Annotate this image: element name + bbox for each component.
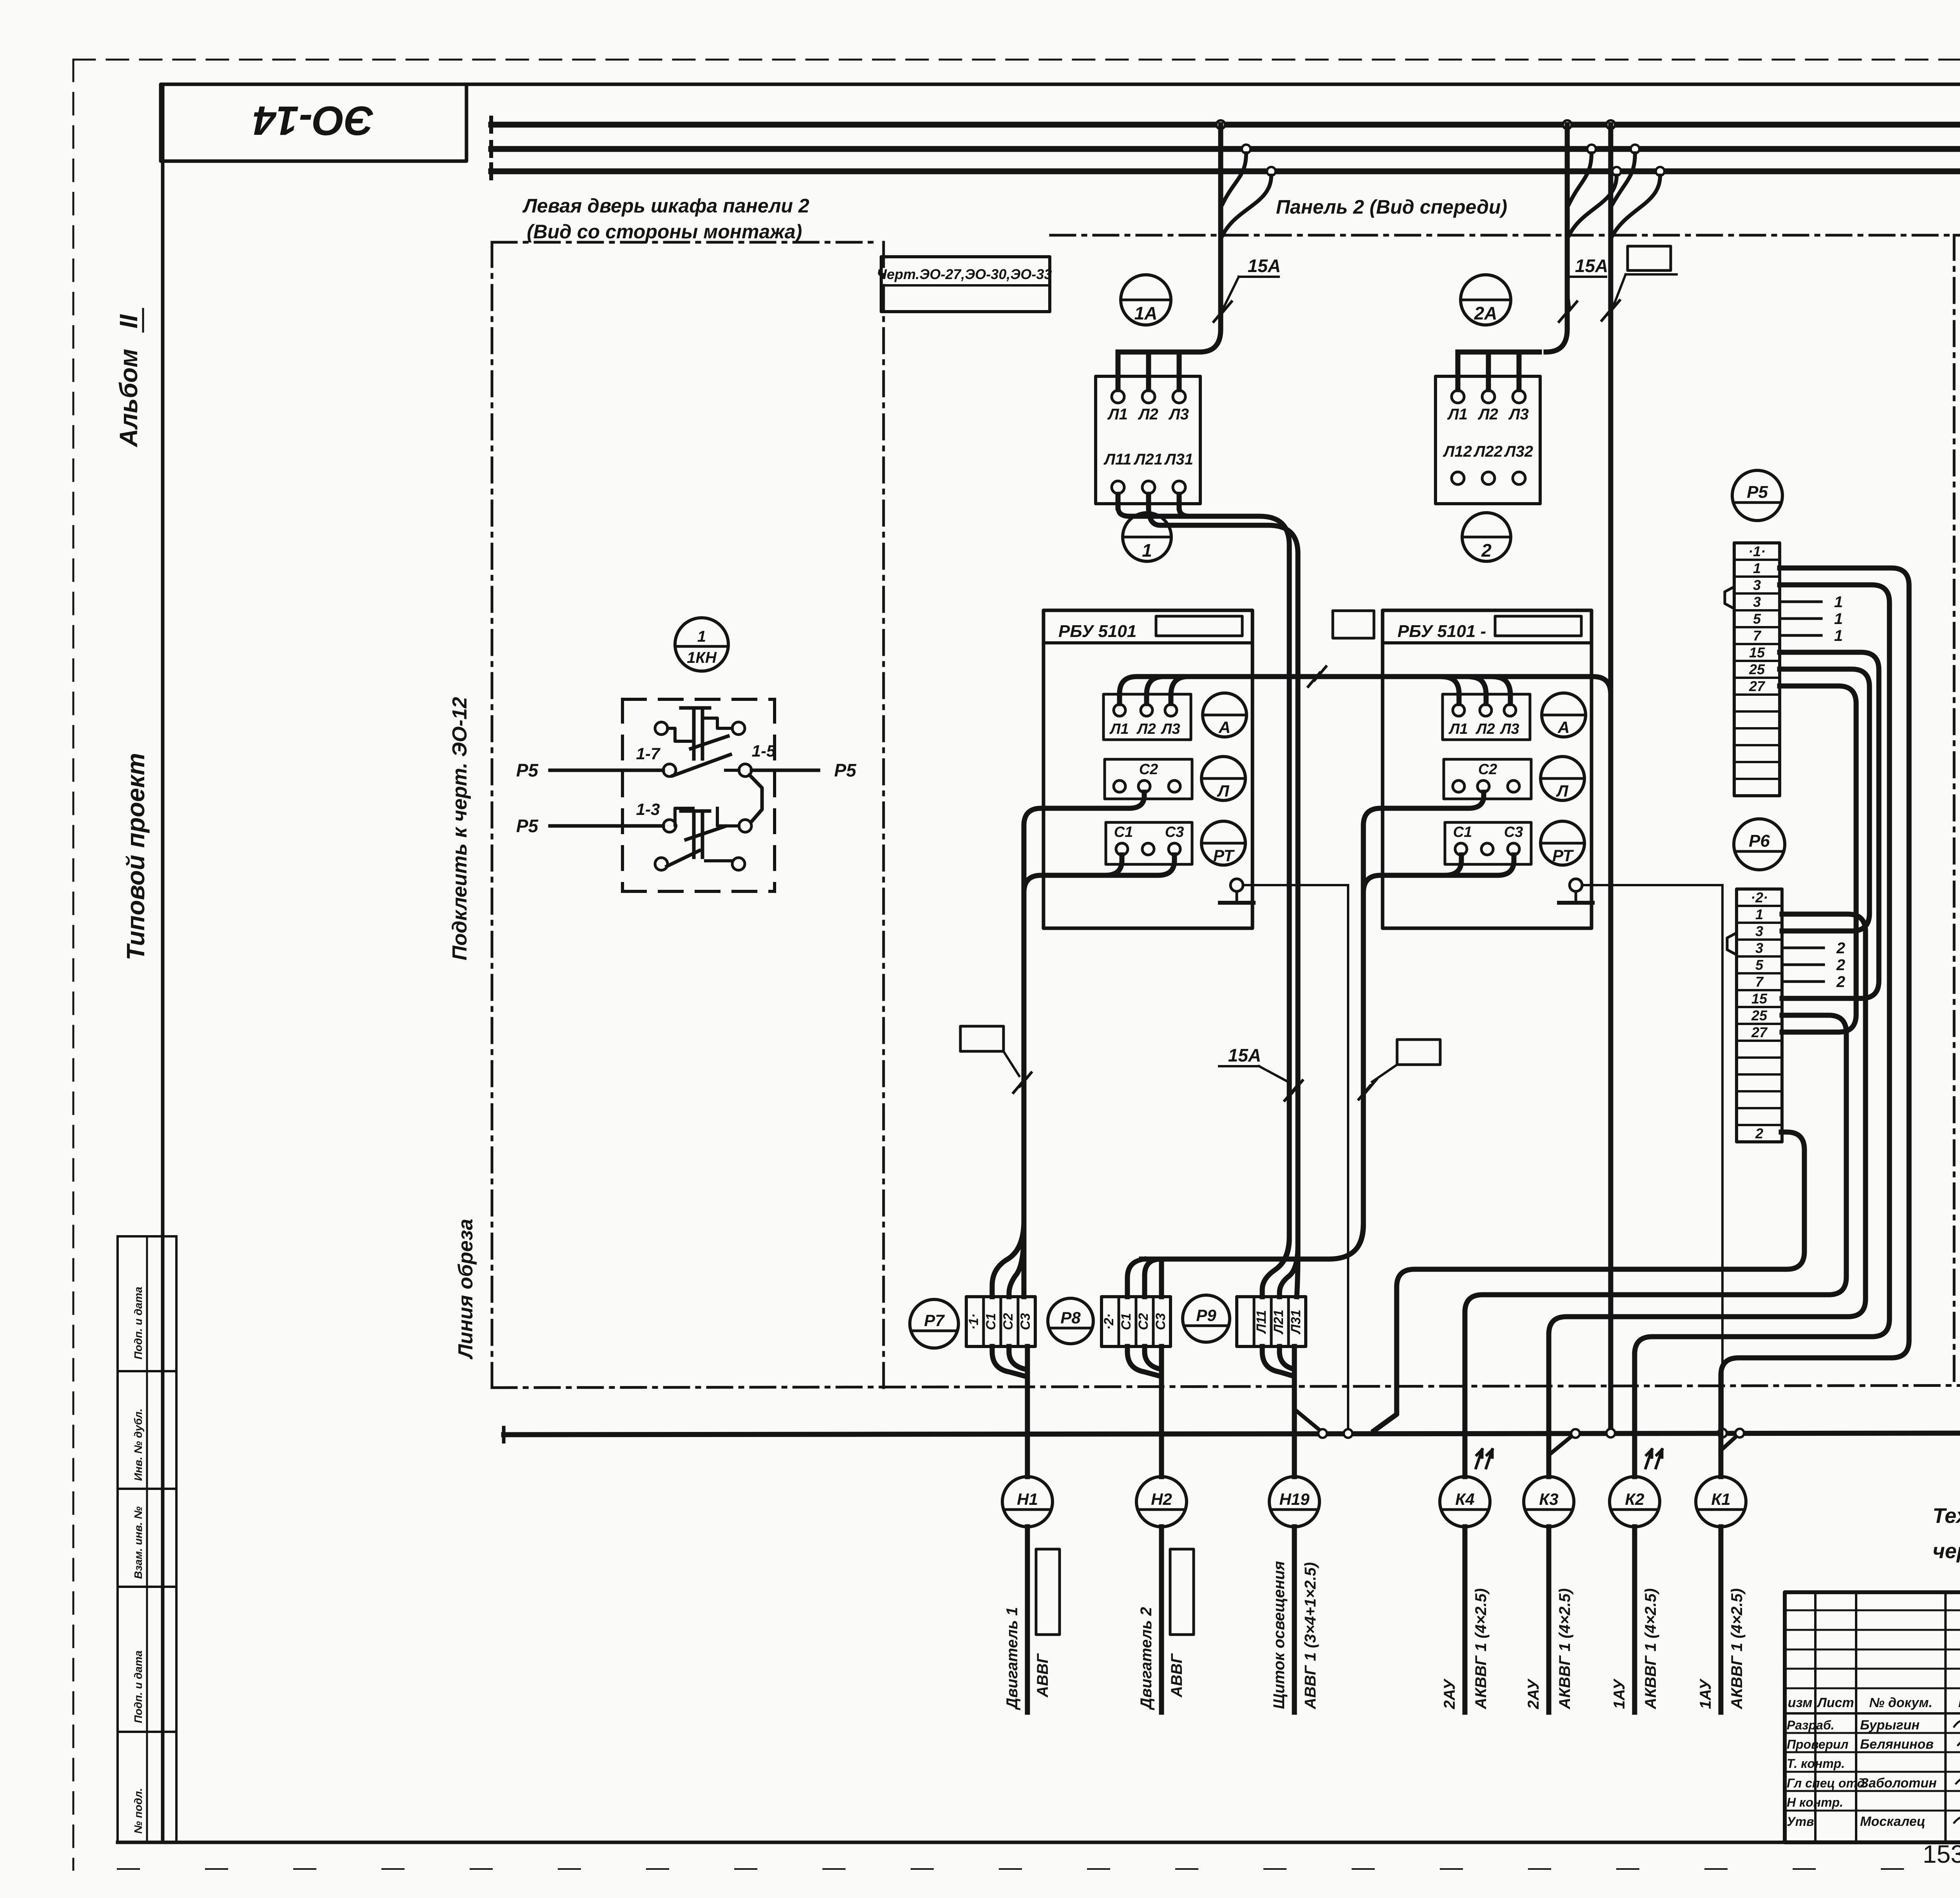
svg-text:1: 1 <box>697 628 706 645</box>
svg-text:1: 1 <box>1753 560 1761 576</box>
leads and labels of 1КН <box>550 769 663 772</box>
svg-text:1: 1 <box>1834 627 1843 644</box>
svg-text:Н1: Н1 <box>1017 1490 1038 1508</box>
bus L1 Zheltaya <box>491 169 1960 174</box>
svg-text:Л1: Л1 <box>1107 406 1128 423</box>
hooks below terminal block 1 <box>992 1346 1024 1376</box>
svg-text:1КН: 1КН <box>687 649 717 666</box>
bottom terminal block 1 <box>966 1297 1035 1346</box>
wire drop to fuse-switch 2A <box>1563 120 1572 129</box>
svg-text:С1: С1 <box>1114 824 1133 840</box>
svg-text:№ подл.: № подл. <box>132 1788 144 1834</box>
svg-text:РТ: РТ <box>1552 846 1574 865</box>
wire strip1 row3 to K2 <box>1635 585 1889 1471</box>
relay circle P9 <box>1183 1295 1230 1342</box>
svg-text:РТ: РТ <box>1213 846 1235 865</box>
svg-text:Л3: Л3 <box>1160 721 1180 737</box>
bottom wire bundle of 1А <box>1116 494 1121 508</box>
border frame <box>163 83 1960 86</box>
svg-text:15: 15 <box>1749 644 1765 660</box>
cable mark rectangle third feeder <box>1628 246 1671 270</box>
svg-text:Двигатель 2: Двигатель 2 <box>1138 1607 1155 1710</box>
svg-text:С1: С1 <box>1119 1313 1134 1330</box>
svg-text:Л2: Л2 <box>1477 406 1498 423</box>
svg-text:С2: С2 <box>1139 761 1158 778</box>
left door left edge <box>491 242 494 1388</box>
svg-text:1-7: 1-7 <box>636 744 661 763</box>
cable mark rectangle motor1 cable <box>960 1026 1004 1051</box>
wire strip1 row27 loop to strip2 row27 <box>1780 686 1856 1032</box>
junction K1 tap to zero bus <box>1721 1435 1738 1450</box>
feeder circle К1 <box>1719 1379 1724 1477</box>
svg-text:Белянинов: Белянинов <box>1860 1737 1934 1752</box>
svg-text:15А: 15А <box>1248 256 1281 276</box>
svg-text:25: 25 <box>1749 661 1765 677</box>
svg-text:15: 15 <box>1751 991 1768 1007</box>
svg-text:3: 3 <box>1755 940 1763 956</box>
bottom terminals of 1А <box>1112 481 1124 494</box>
svg-text:АВВГ: АВВГ <box>1168 1653 1185 1698</box>
relay circle P7 <box>910 1299 958 1348</box>
wire strip1 row1 to K1 <box>1721 568 1909 1471</box>
feeder cable below К3 <box>1546 1527 1552 1712</box>
svg-text:5: 5 <box>1755 957 1764 973</box>
svg-text:Панель 2 (Вид спереди): Панель 2 (Вид спереди) <box>1276 196 1507 218</box>
svg-text:Л: Л <box>1556 782 1569 800</box>
bottom terminal block 2 <box>1102 1297 1171 1346</box>
svg-text:Н19: Н19 <box>1279 1490 1310 1508</box>
svg-text:15А: 15А <box>1575 256 1608 276</box>
svg-text:Р5: Р5 <box>1747 483 1768 502</box>
switch terminal box 1А <box>1096 376 1200 504</box>
junction ground right to zero bus <box>1718 1429 1727 1437</box>
svg-text:15384-02: 15384-02 <box>1923 1840 1960 1868</box>
ground wire right starter to zero bus <box>1582 884 1722 886</box>
doors bottom boundary <box>492 1385 1960 1388</box>
svg-text:Разраб.: Разраб. <box>1787 1718 1835 1732</box>
svg-text:·2·: ·2· <box>1102 1314 1116 1330</box>
svg-text:Р6: Р6 <box>1749 831 1770 851</box>
svg-text:Подп.: Подп. <box>1958 1695 1960 1710</box>
wire strip1 row25 loop to strip2 row3 <box>1780 669 1869 931</box>
terminals L1 L2 L3 of 2А <box>1452 390 1464 403</box>
svg-text:Л: Л <box>1217 782 1230 800</box>
svg-text:Т. контр.: Т. контр. <box>1787 1756 1845 1771</box>
title block outline <box>1785 1592 1960 1842</box>
contact group 1 of 1КН <box>681 706 710 710</box>
svg-text:Л1: Л1 <box>1448 721 1468 737</box>
svg-text:II: II <box>114 314 143 328</box>
svg-text:Альбом: Альбом <box>114 349 143 448</box>
push button switch 1КН dashed box <box>622 698 775 701</box>
contact group 2 of 1КН <box>681 809 710 813</box>
svg-text:С2: С2 <box>1001 1313 1016 1330</box>
fanout of motor1 cable to terminal block 1 <box>992 1223 1024 1297</box>
short wires with numbers strip1 <box>1780 601 1821 603</box>
starter block РБУ 5101 outline <box>1044 610 1252 928</box>
svg-text:Р5: Р5 <box>516 760 539 780</box>
stamp column table <box>116 1236 119 1842</box>
stator wires C1 C3 left starter <box>1024 855 1122 1225</box>
svg-text:Р7: Р7 <box>924 1311 945 1330</box>
svg-text:2АУ: 2АУ <box>1441 1678 1458 1709</box>
svg-text:3: 3 <box>1755 923 1763 939</box>
svg-text:2: 2 <box>1481 540 1492 561</box>
ground terminal of РБУ 5101 <box>1230 879 1243 891</box>
feeder circle Н1 <box>1025 1346 1030 1477</box>
wire bundle top of 2А <box>1458 350 1539 355</box>
svg-text:Инв. № дубл.: Инв. № дубл. <box>132 1408 144 1481</box>
feeder circle К2 <box>1632 1354 1637 1477</box>
terminal strip 2 <box>1737 889 1782 1142</box>
svg-text:С2: С2 <box>1136 1313 1151 1330</box>
lamp indicator L of РБУ 5101 - <box>1541 757 1584 800</box>
svg-text:3: 3 <box>1753 594 1761 610</box>
feeder circle К3 <box>1546 1334 1552 1477</box>
svg-text:Л21: Л21 <box>1271 1310 1286 1335</box>
svg-text:Л2: Л2 <box>1138 406 1158 423</box>
svg-text:№ докум.: № докум. <box>1869 1695 1932 1710</box>
svg-text:К4: К4 <box>1455 1490 1474 1508</box>
svg-text:С1: С1 <box>1453 824 1472 840</box>
terminal box C2 of РБУ 5101 <box>1105 759 1192 799</box>
terminals L1 L2 L3 of 1А <box>1112 390 1124 403</box>
svg-text:(Вид со стороны монтажа): (Вид со стороны монтажа) <box>527 221 802 243</box>
svg-text:2АУ: 2АУ <box>1525 1678 1542 1709</box>
panel right door boundary <box>1953 235 1956 1388</box>
feeder cable below Н1 <box>1025 1527 1030 1712</box>
svg-text:черт. ЭО-28, ЭО-31 и ЭО-34: черт. ЭО-28, ЭО-31 и ЭО-34 <box>1933 1539 1960 1563</box>
svg-text:2: 2 <box>1836 956 1845 974</box>
svg-text:Л31: Л31 <box>1164 451 1193 468</box>
svg-text:Щиток освещения: Щиток освещения <box>1270 1561 1288 1709</box>
svg-text:Подп. и дата: Подп. и дата <box>132 1651 144 1723</box>
svg-text:7: 7 <box>1755 974 1764 990</box>
svg-text:АКВВГ 1 (4×2.5): АКВВГ 1 (4×2.5) <box>1642 1588 1659 1709</box>
push button switch 1КН circle <box>675 618 728 671</box>
svg-text:АВВГ: АВВГ <box>1034 1653 1051 1698</box>
sheet code box ЭО-14 <box>161 84 466 161</box>
svg-text:Л3: Л3 <box>1168 406 1189 423</box>
signatures scribbles <box>1954 1717 1960 1727</box>
svg-text:1: 1 <box>1834 593 1843 611</box>
cable mark rectangle motor2 cable <box>1397 1040 1440 1065</box>
svg-text:изм: изм <box>1788 1695 1813 1710</box>
svg-text:1: 1 <box>1755 906 1763 922</box>
wire drop to fuse-switch 1A <box>1216 120 1225 129</box>
feeder circle К4 <box>1463 1312 1468 1477</box>
thermal relay RT of РБУ 5101 <box>1201 821 1245 865</box>
svg-text:Р5: Р5 <box>516 816 539 836</box>
svg-text:1: 1 <box>1142 540 1152 561</box>
svg-text:АКВВГ 1 (4×2.5): АКВВГ 1 (4×2.5) <box>1556 1588 1573 1709</box>
svg-text:АВВГ 1 (3×4+1×2.5): АВВГ 1 (3×4+1×2.5) <box>1302 1562 1319 1709</box>
svg-text:Линия обреза: Линия обреза <box>454 1219 477 1360</box>
svg-text:27: 27 <box>1751 1024 1768 1040</box>
svg-text:Л11: Л11 <box>1254 1310 1269 1334</box>
svg-text:Подклеить к черт. ЭО-12: Подклеить к черт. ЭО-12 <box>448 697 471 960</box>
svg-text:1АУ: 1АУ <box>1697 1678 1714 1709</box>
svg-text:Проверил: Проверил <box>1787 1737 1849 1751</box>
svg-text:Л32: Л32 <box>1504 443 1533 460</box>
bottom terminal block 3 <box>1237 1297 1306 1346</box>
svg-text:ЭО-14: ЭО-14 <box>253 98 374 143</box>
terminal box L1 L2 L3 of РБУ 5101 - <box>1443 694 1530 740</box>
svg-text:·1·: ·1· <box>1748 543 1766 559</box>
svg-text:2А: 2А <box>1474 303 1497 323</box>
svg-text:Л1: Л1 <box>1109 721 1129 737</box>
strip 1 left tab <box>1725 587 1734 609</box>
svg-text:А: А <box>1218 718 1230 737</box>
feeder cable below Н2 <box>1159 1527 1164 1712</box>
svg-text:1-5: 1-5 <box>752 742 776 760</box>
svg-text:2: 2 <box>1836 973 1845 991</box>
wire strip2 row25 to K4 <box>1465 1015 1846 1471</box>
ground terminal of РБУ 5101 - <box>1570 879 1582 891</box>
svg-text:К1: К1 <box>1711 1490 1730 1508</box>
svg-text:15А: 15А <box>1228 1045 1261 1065</box>
left door right edge <box>882 242 885 1388</box>
svg-text:Л3: Л3 <box>1508 406 1529 423</box>
svg-text:К2: К2 <box>1625 1490 1644 1508</box>
svg-text:Левая дверь шкафа панели 2: Левая дверь шкафа панели 2 <box>522 195 809 217</box>
feeder cable below К2 <box>1632 1527 1637 1712</box>
svg-text:А: А <box>1557 718 1570 737</box>
svg-text:С1: С1 <box>984 1313 998 1330</box>
svg-text:Н контр.: Н контр. <box>1787 1795 1843 1809</box>
svg-text:3: 3 <box>1753 577 1761 593</box>
svg-text:27: 27 <box>1749 678 1766 694</box>
svg-text:С3: С3 <box>1018 1313 1033 1330</box>
stator wires C1 C3 right starter <box>1363 855 1461 1225</box>
svg-text:Р9: Р9 <box>1196 1306 1216 1325</box>
svg-text:2: 2 <box>1755 1125 1763 1141</box>
terminal box C1 C3 of РБУ 5101 <box>1106 822 1192 864</box>
feeder cable below К4 <box>1463 1527 1468 1712</box>
svg-text:Н2: Н2 <box>1151 1490 1172 1508</box>
ammeter circle 1А <box>1121 275 1171 325</box>
bus L2 Zelenaya <box>491 146 1960 152</box>
svg-text:Заболотин: Заболотин <box>1860 1776 1937 1791</box>
svg-text:Лист: Лист <box>1816 1695 1854 1710</box>
thermal relay RT of РБУ 5101 - <box>1541 821 1584 865</box>
wire strip1 row15 loop to strip2 row15 <box>1780 652 1879 998</box>
reference drawings box <box>881 257 1050 312</box>
feeder cable below Н19 <box>1292 1527 1297 1712</box>
panel marker circle 1 <box>1123 513 1171 561</box>
small rectangle label near РБУ 5101 - <box>1333 611 1374 638</box>
svg-text:Гл спец отд: Гл спец отд <box>1787 1776 1865 1790</box>
svg-text:Взам. инв. №: Взам. инв. № <box>132 1506 144 1579</box>
terminal box L1 L2 L3 of РБУ 5101 <box>1103 694 1191 740</box>
feeder cable below К1 <box>1719 1527 1724 1712</box>
relay circle P8 <box>1048 1298 1093 1344</box>
svg-text:1АУ: 1АУ <box>1611 1678 1628 1709</box>
svg-text:5: 5 <box>1753 611 1761 627</box>
bottom terminals of 2А <box>1452 472 1464 484</box>
terminal box C2 of РБУ 5101 - <box>1444 759 1531 799</box>
svg-text:1-3: 1-3 <box>636 800 660 818</box>
hooks below terminal block 3 <box>1262 1346 1293 1376</box>
strip 2 left tab <box>1727 933 1737 955</box>
ground wire left starter to zero bus <box>1243 884 1348 886</box>
svg-text:Черт.ЭО-27,ЭО-30,ЭО-33: Черт.ЭО-27,ЭО-30,ЭО-33 <box>877 266 1052 282</box>
starter block РБУ 5101 - outline <box>1383 610 1592 928</box>
svg-text:Л22: Л22 <box>1473 443 1503 460</box>
svg-text:Л31: Л31 <box>1289 1310 1303 1335</box>
svg-text:Типовой проект: Типовой проект <box>122 753 150 960</box>
terminal strip 1 <box>1734 543 1780 796</box>
junction marker circle P5 <box>1732 470 1782 521</box>
svg-text:Бурыгин: Бурыгин <box>1860 1718 1920 1733</box>
svg-text:·2·: ·2· <box>1751 889 1768 905</box>
svg-text:1: 1 <box>1834 610 1843 628</box>
svg-text:Л2: Л2 <box>1136 721 1156 737</box>
junction K3 tap to zero bus <box>1549 1435 1573 1455</box>
svg-text:Москалец: Москалец <box>1860 1814 1926 1829</box>
svg-text:7: 7 <box>1753 628 1762 644</box>
svg-text:С3: С3 <box>1504 824 1523 840</box>
svg-text:2: 2 <box>1836 940 1845 957</box>
panel and doors boundary top <box>492 241 880 244</box>
wire from terminal 2-row to zero bus area <box>1374 1132 1804 1431</box>
junction interconnect drop to zero bus <box>1606 1429 1615 1437</box>
wire bundle top of 1А <box>1118 350 1200 355</box>
wire strip2 row1 to K3 <box>1549 914 1866 1471</box>
svg-text:АКВВГ 1 (4×2.5): АКВВГ 1 (4×2.5) <box>1728 1588 1746 1709</box>
outer cut dashed line <box>73 59 1960 61</box>
svg-text:25: 25 <box>1751 1007 1768 1023</box>
phase indicator A of РБУ 5101 <box>1203 693 1247 737</box>
svg-text:С3: С3 <box>1153 1313 1168 1330</box>
wire drop third feeder <box>1606 120 1615 129</box>
stator wire C2 left starter <box>1024 792 1144 843</box>
motor2 cable feed to terminal block 2 <box>1142 1225 1363 1259</box>
phase indicator A of РБУ 5101 - <box>1542 693 1586 737</box>
svg-text:АКВВГ 1 (4×2.5): АКВВГ 1 (4×2.5) <box>1472 1588 1490 1709</box>
svg-text:С3: С3 <box>1165 824 1184 840</box>
svg-text:Л11: Л11 <box>1103 451 1131 468</box>
lamp indicator L of РБУ 5101 <box>1201 757 1245 800</box>
switch terminal box 2А <box>1436 376 1540 504</box>
junction H19 tap to zero bus <box>1297 1411 1321 1432</box>
svg-text:·1·: ·1· <box>966 1314 981 1330</box>
feeder circle Н19 <box>1292 1346 1297 1477</box>
svg-text:РБУ 5101 -: РБУ 5101 - <box>1397 622 1486 641</box>
svg-text:РБУ 5101: РБУ 5101 <box>1058 622 1136 641</box>
panel marker circle 2 <box>1462 513 1511 561</box>
feeder circle Н2 <box>1159 1346 1164 1477</box>
zero bus Shina nulevaya <box>504 1433 1960 1435</box>
svg-text:Р8: Р8 <box>1060 1308 1081 1327</box>
svg-text:Л2: Л2 <box>1475 721 1495 737</box>
bus L3 Krasnaya <box>491 122 1960 128</box>
ammeter circle 2А <box>1461 275 1511 325</box>
svg-text:Л3: Л3 <box>1499 721 1519 737</box>
svg-text:С2: С2 <box>1478 761 1497 778</box>
short wires with numbers strip2 <box>1782 947 1824 949</box>
stator wire C2 right starter <box>1363 792 1484 843</box>
terminal box C1 C3 of РБУ 5101 - <box>1445 822 1531 864</box>
svg-text:1А: 1А <box>1134 303 1158 323</box>
junction marker circle P6 <box>1734 819 1785 870</box>
svg-text:Двигатель 1: Двигатель 1 <box>1004 1607 1021 1710</box>
link between contacts of 1КН <box>750 775 762 821</box>
lighting feeder bundle to terminal block 3 <box>1287 572 1292 1239</box>
svg-text:Утв.: Утв. <box>1787 1815 1817 1829</box>
wire interconnect L-terminals both starters <box>1120 677 1611 704</box>
svg-text:Л1: Л1 <box>1447 406 1468 423</box>
svg-text:Л12: Л12 <box>1443 443 1472 460</box>
svg-text:К3: К3 <box>1539 1490 1558 1508</box>
svg-text:Л21: Л21 <box>1133 451 1163 468</box>
hooks below terminal block 2 <box>1127 1346 1159 1376</box>
svg-text:Подп. и дата: Подп. и дата <box>132 1287 144 1359</box>
junction ground left to zero bus <box>1344 1429 1352 1438</box>
title block revision table <box>1814 1592 1817 1842</box>
svg-text:Технические данные электрооб: Технические данные электрооборудования <box>1933 1504 1960 1528</box>
svg-text:Р5: Р5 <box>834 760 857 780</box>
